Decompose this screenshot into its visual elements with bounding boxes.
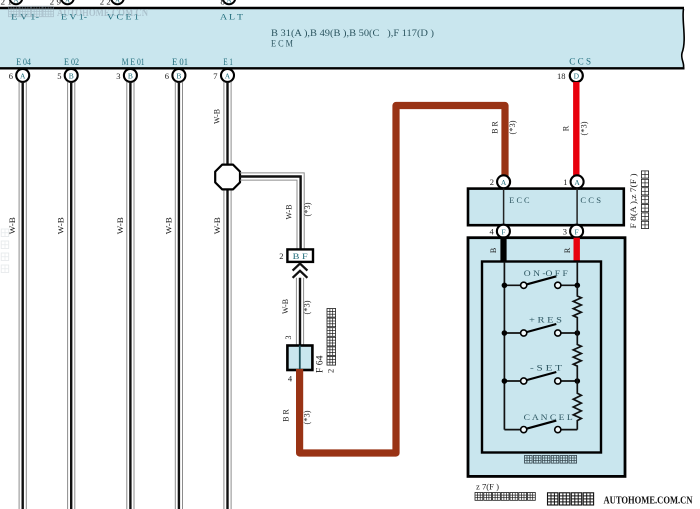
resistor R1 [573,285,581,333]
wire W-B branch octagon to BF connector [240,173,304,250]
svg-text:6: 6 [9,71,13,81]
left bus wire [503,262,505,430]
svg-text:18: 18 [557,71,566,81]
svg-text:A: A [226,0,231,5]
svg-text:A: A [20,72,26,81]
wire W-B from ECM pin 4 [175,82,182,509]
svg-text:A: A [501,178,507,187]
watermark top 汽车之家 AUTOHOME.COM.CN [9,6,149,19]
svg-text:A: A [13,0,18,5]
switch ON-OFF blade [527,276,556,284]
resistor R2 [573,333,581,381]
pin 4(F) ECC [490,225,510,238]
svg-text:AUTOHOME.COM.CN: AUTOHOME.COM.CN [604,496,694,507]
svg-text:2: 2 [490,177,494,187]
svg-text:2: 2 [326,369,336,373]
svg-text:M E 01: M E 01 [122,57,145,67]
svg-text:E C M: E C M [271,39,293,49]
svg-text:8: 8 [220,0,225,6]
switch SET blade [527,372,556,380]
svg-text:AUTOHOME.COM.CN: AUTOHOME.COM.CN [57,8,149,19]
svg-text:2 2: 2 2 [100,0,111,6]
pin 8(A) top [220,0,235,6]
svg-text:F 64: F 64 [315,355,325,373]
svg-text:3: 3 [284,336,293,340]
spiral cable connector box ECC/CCS [468,189,624,226]
svg-text:C C S: C C S [569,57,591,67]
svg-text:6: 6 [165,71,169,81]
ECM band top border [0,7,684,10]
svg-text:B 31(A ),B 49(B ),B 50(C ),F: B 31(A ),B 49(B ),B 50(C ),F 117(D ) [271,28,434,38]
svg-text:A L T: A L T [220,12,244,22]
label 巡航控制主开关 [475,493,483,501]
cruise control main switch box z7(F) [468,238,625,477]
svg-text:5: 5 [57,71,61,81]
wire W-B chevron to F64 [296,278,303,346]
label 巡航控制开关 [525,456,533,464]
junction connector F64 [287,346,312,371]
svg-text:B: B [128,72,133,81]
pin 5(B) ECM [57,69,77,82]
svg-text:W-B: W-B [163,217,173,234]
pin 3(B) ECM [116,69,137,82]
svg-text:z 7(F ): z 7(F ) [476,482,499,492]
svg-text:4: 4 [490,227,495,237]
svg-text:- S E T: - S E T [530,363,563,373]
svg-text:W-B: W-B [212,217,222,234]
svg-text:F: F [575,227,579,236]
switch RES contacts [521,330,527,336]
wire B-R brown F64 to ECC [300,106,505,454]
svg-text:C A N C E L: C A N C E L [524,412,573,422]
switch ON-OFF row wires [504,284,577,286]
svg-text:A: A [225,72,231,81]
svg-text:2: 2 [279,251,283,261]
wire R red from pin 18(D) to ECC pin 1(A) [573,82,579,177]
svg-text:E 04: E 04 [16,57,31,67]
label 螺旋电缆分总成 vertical [641,171,648,178]
pin 2(A) ECC [490,175,510,188]
junction dots row SET [502,378,508,384]
pin 6(B) ECM [165,69,186,82]
svg-text:+ R E S: + R E S [529,315,562,325]
wire W-B from octagon down [224,189,231,509]
svg-text:E 02: E 02 [64,57,79,67]
ECM band bottom border [0,67,685,69]
svg-text:W-B: W-B [283,204,293,219]
svg-text:F 8(A ),z 7(F ): F 8(A ),z 7(F ) [628,173,638,228]
svg-text:E C C: E C C [509,195,530,205]
pin 7(A) ECM [213,69,234,82]
wire W-B from ECM pin 2 [68,82,75,509]
junction dots row ON-OFF [502,283,508,289]
switch RES blade [527,324,556,332]
junction octagon on wire E1 [215,165,240,190]
svg-text:W-B: W-B [212,109,222,124]
connector BF pin 2 [279,249,313,262]
svg-text:W-B: W-B [115,217,125,234]
svg-text:(*3): (*3) [508,120,517,134]
svg-text:(*3): (*3) [303,202,312,216]
svg-text:B: B [69,72,74,81]
ECM block band [0,9,684,67]
switch SET contacts [521,378,527,384]
svg-text:D: D [574,72,580,81]
pin 3(F) ECC [563,225,583,238]
watermark left edge faint [1,229,9,273]
switch SET row wires [504,380,577,382]
svg-text:2 1: 2 1 [1,0,13,6]
switch CANCEL contacts [521,427,527,433]
svg-text:W-B: W-B [56,217,66,234]
junction dots row RES [502,330,508,336]
switch RES row wires [504,332,577,334]
svg-text:A: A [115,0,120,5]
pin 21(A) top [1,0,23,6]
switch ON-OFF contacts [521,282,527,288]
pin 6(A) ECM [9,69,29,82]
svg-text:A: A [65,0,70,5]
pin 29(A) top [50,0,74,6]
svg-text:F: F [501,227,505,236]
pin 22(A) top [100,0,124,6]
svg-text:E 1: E 1 [223,57,233,67]
switch CANCEL row wires [504,429,577,431]
svg-text:B: B [489,248,498,253]
svg-text:C C S: C C S [580,195,601,205]
wire W-B from ECM pin 7(A) upper [224,82,231,165]
svg-text:3: 3 [563,227,567,237]
switch CANCEL blade [527,421,556,429]
resistor R3 [573,381,581,430]
svg-text:B R: B R [490,121,500,134]
watermark bottom 汽车之家 [548,493,558,505]
wire R red pin3F to switch [574,238,580,262]
svg-text:(*3): (*3) [303,410,312,424]
svg-text:B F: B F [293,251,308,261]
svg-text:R: R [563,247,572,253]
wire B black pin4F to switch [500,238,506,262]
svg-text:2 9: 2 9 [50,0,61,6]
right bus wire top [576,262,578,286]
svg-text:7: 7 [213,71,217,81]
svg-text:A: A [574,178,580,187]
svg-text:E 01: E 01 [172,57,188,67]
svg-text:O N -O F F: O N -O F F [524,268,568,278]
wire W-B from ECM pin 1 [19,82,26,509]
chevron twisted-wire symbol [293,264,308,278]
svg-text:B: B [176,72,181,81]
svg-text:1: 1 [563,177,567,187]
wire W-B from ECM pin 3 [127,82,134,509]
svg-text:(*3): (*3) [580,121,589,135]
svg-text:B R: B R [281,409,291,422]
cruise control switch inner box [482,262,601,453]
svg-text:3: 3 [116,71,120,81]
svg-text:R: R [561,125,571,131]
pin 1(A) ECC [563,175,583,188]
svg-text:W-B: W-B [280,299,290,314]
ECM band torn right edge [682,9,685,67]
svg-text:(*3): (*3) [302,300,311,314]
pin 18(D) ECM CCS [557,69,583,82]
